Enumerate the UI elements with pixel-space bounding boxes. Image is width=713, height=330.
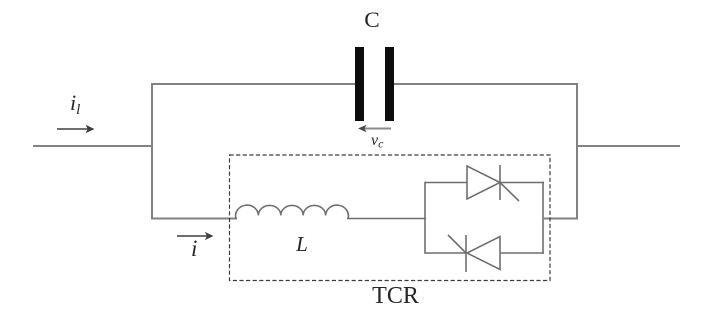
wire outer loop left vertical (151, 83, 153, 220)
svg-text:i: i (191, 236, 197, 261)
wire inner rectangle bottom-left segment (425, 252, 466, 254)
svg-text:il: il (70, 90, 80, 118)
svg-text:TCR: TCR (372, 283, 419, 309)
wire bottom branch left segment (152, 218, 237, 220)
capacitor C right plate (385, 47, 394, 121)
wire inductor to thyristor pair (347, 218, 426, 220)
svg-text:vc: vc (371, 132, 384, 151)
wire thyristor pair output to right vertical (543, 218, 578, 220)
wire inner rectangle left vertical (424, 182, 426, 254)
wire outer loop right vertical (576, 83, 578, 220)
TCR dashed box (230, 155, 551, 281)
arrow i (points right) (177, 232, 214, 240)
arrow vc reference (points left) (358, 125, 391, 133)
wire main left horizontal (33, 145, 153, 147)
capacitor C left plate (355, 47, 364, 121)
wire inner rectangle right vertical (542, 182, 544, 254)
arrow il (points right) (57, 125, 95, 133)
wire inner rectangle top-right segment (500, 182, 544, 184)
svg-text:C: C (364, 7, 380, 32)
wire inner rectangle top-left segment (425, 182, 467, 184)
wire top branch right segment (394, 83, 578, 85)
thyristor top (anode left, points right) (467, 165, 519, 201)
svg-text:L: L (295, 232, 308, 256)
wire main right horizontal (577, 145, 680, 147)
wire top branch left segment (151, 83, 356, 85)
inductor L coil (236, 205, 349, 219)
thyristor bottom (anode right, points left) (448, 235, 500, 272)
wire inner rectangle bottom-right segment (500, 252, 544, 254)
